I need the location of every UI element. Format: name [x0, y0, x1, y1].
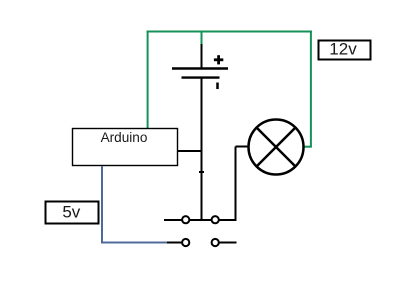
junction tick on battery lead	[199, 171, 204, 173]
battery B1	[172, 44, 228, 78]
box Arduino	[73, 129, 178, 166]
wire: green right vertical to lamp	[310, 31, 312, 147]
wire: lamp to switch S1 vertical	[235, 147, 237, 222]
svg-text:12v: 12v	[329, 40, 357, 59]
wire: green top horizontal (12V rail)	[147, 31, 312, 33]
wire: blue Arduino 5v line	[102, 166, 168, 243]
box 5v	[46, 202, 99, 224]
svg-text:Arduino: Arduino	[101, 130, 148, 145]
wire: green stub to lamp right terminal	[304, 146, 312, 148]
svg-text:5v: 5v	[62, 203, 80, 222]
battery minus label	[216, 83, 219, 90]
box 12v	[319, 41, 371, 60]
battery plus label	[214, 55, 223, 64]
wire: green stub down to battery positive	[201, 32, 203, 47]
wire: green left vertical to Arduino	[147, 31, 149, 129]
wire: battery negative lead down to switch S1	[201, 78, 203, 221]
switch S1 (top row, closed)	[164, 216, 237, 223]
switch S2 (bottom row, open)	[167, 239, 237, 246]
lamp L1	[249, 120, 304, 175]
wire: Arduino right to battery lead	[178, 150, 203, 152]
wire: lamp left lead	[236, 146, 250, 148]
